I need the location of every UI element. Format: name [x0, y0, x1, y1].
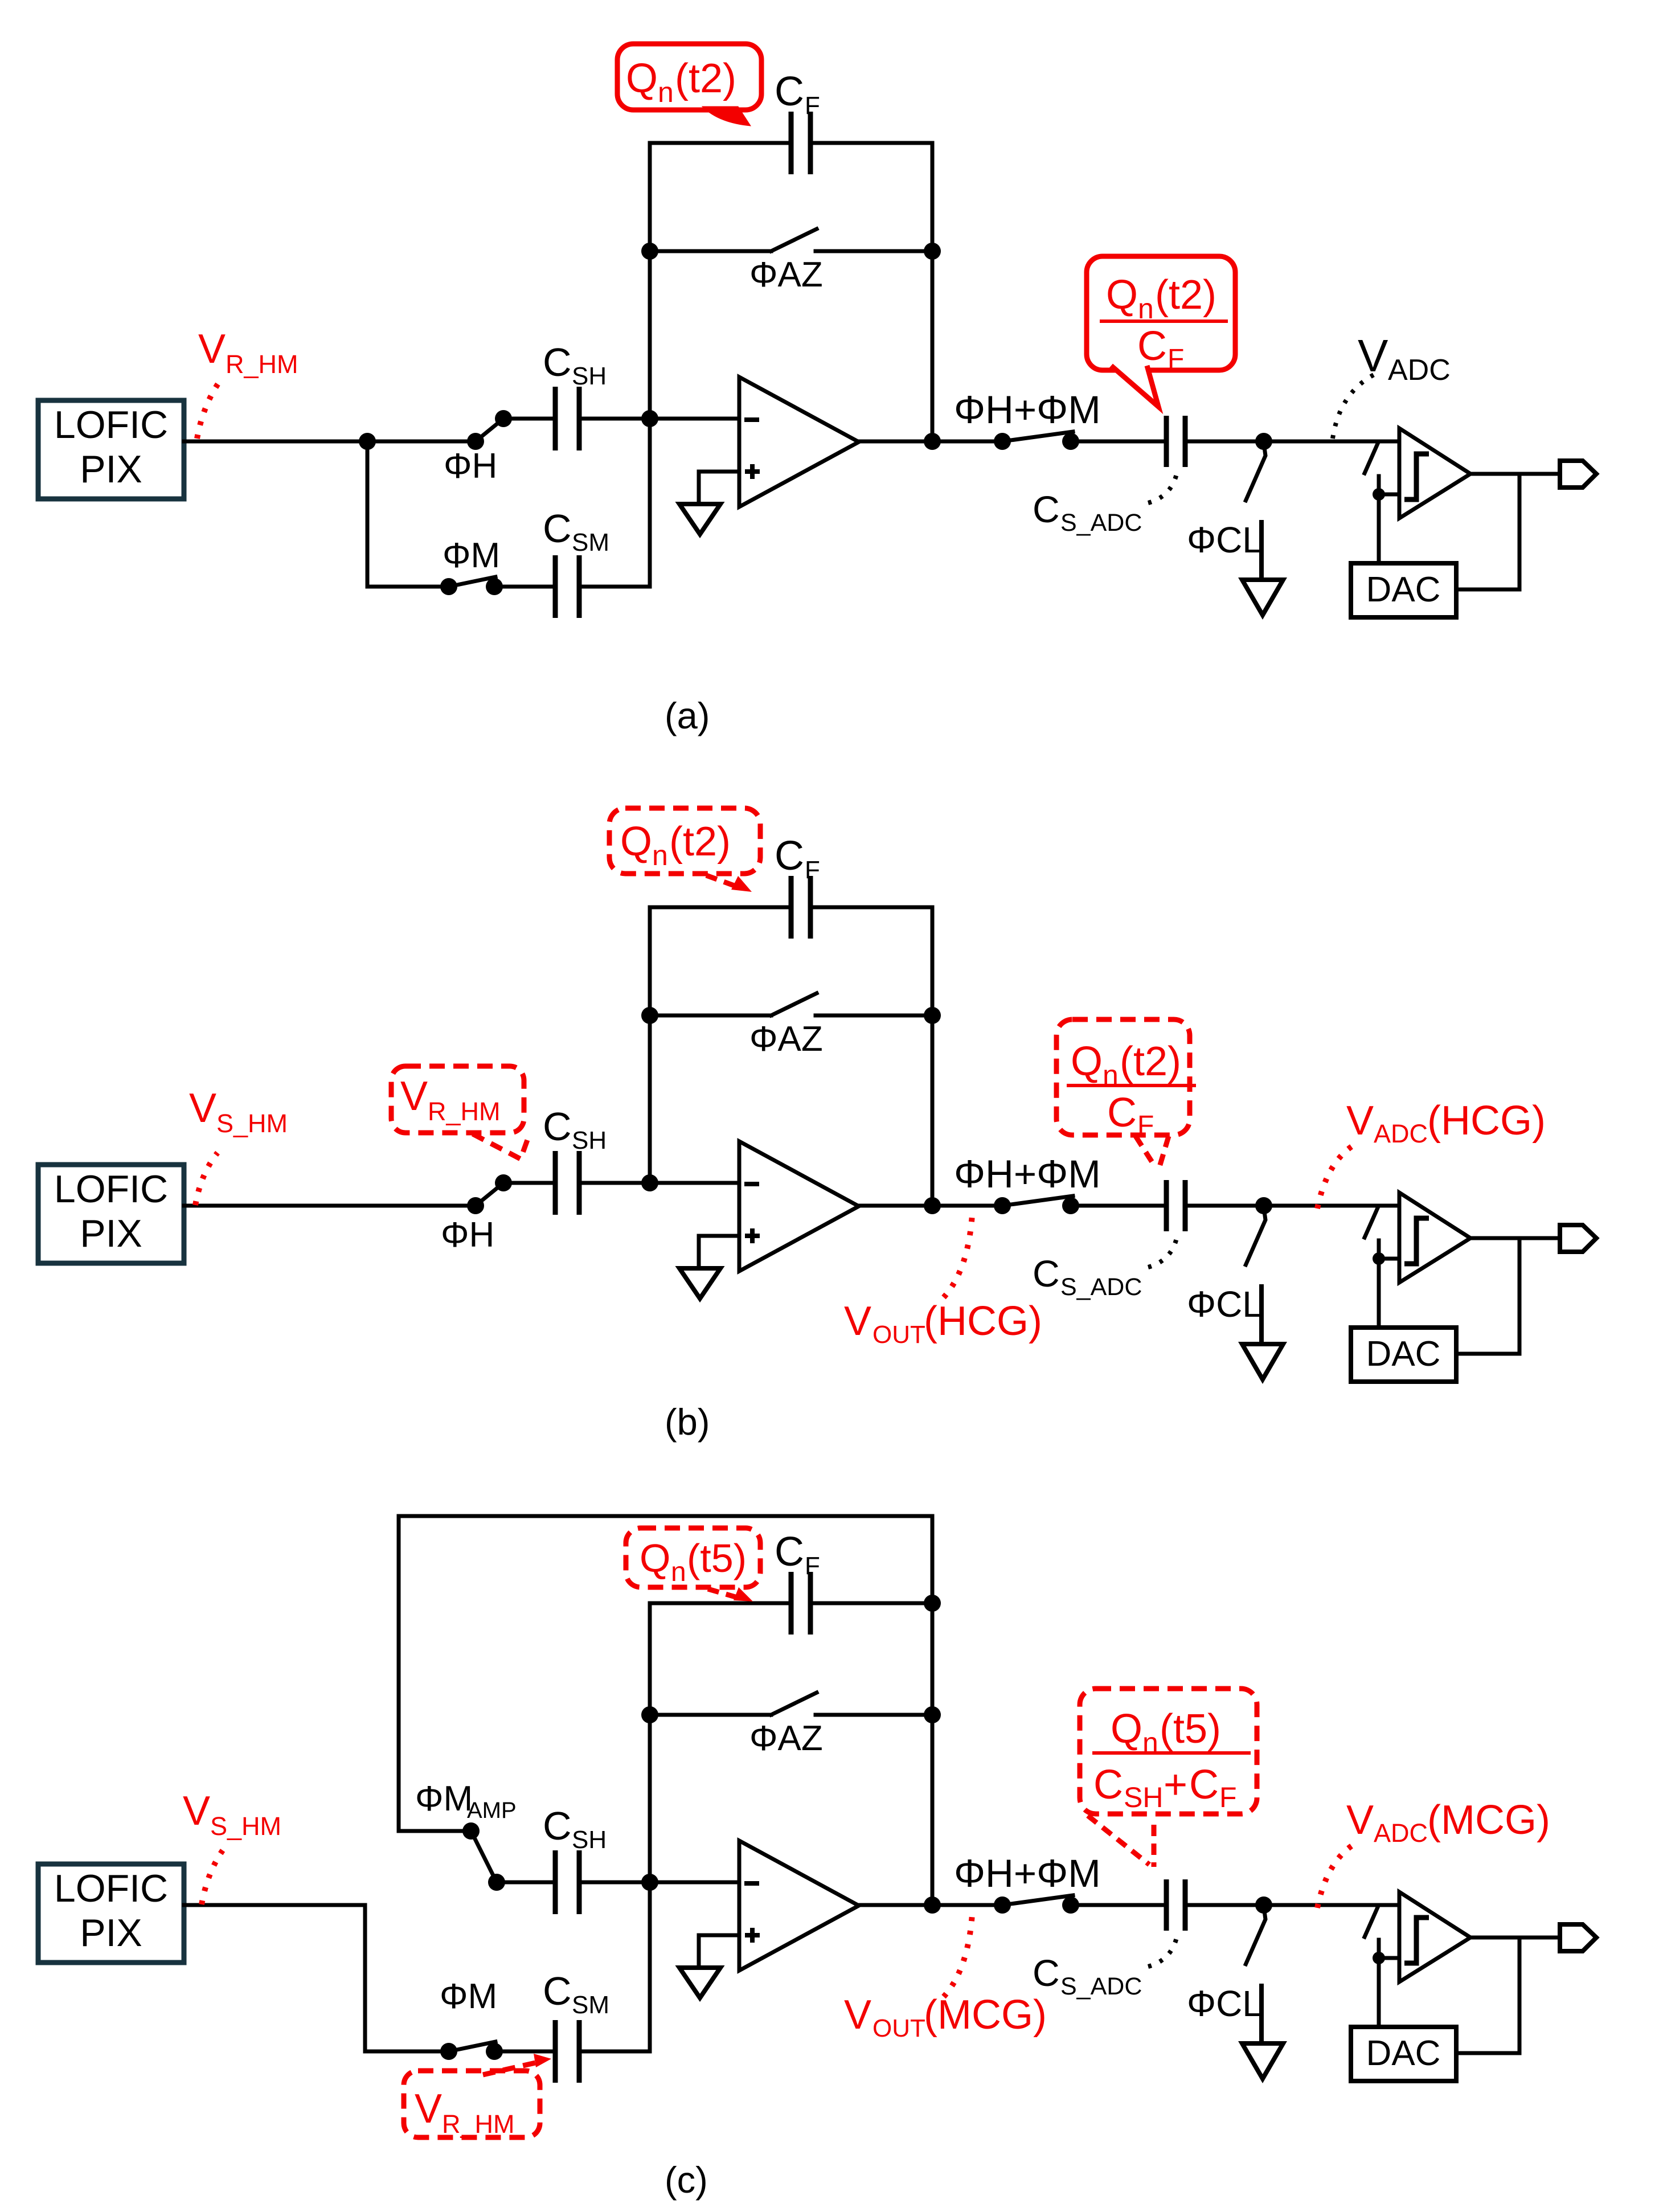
svg-text:ΦM: ΦM — [415, 1779, 473, 1818]
svg-text:PIX: PIX — [80, 1911, 142, 1955]
wire op-amp output — [859, 1204, 932, 1208]
svg-text:SH: SH — [572, 362, 607, 390]
wire node D to comparator — [1264, 1903, 1399, 1907]
comparator sampling switch (a) — [1365, 444, 1378, 473]
svg-text:F: F — [1168, 344, 1184, 374]
svg-text:C: C — [1033, 488, 1060, 530]
node E (DAC feedback node) — [1373, 1252, 1385, 1265]
svg-text:Q: Q — [626, 56, 658, 101]
ground arrow below PHI-CL — [1242, 2043, 1283, 2079]
svg-text:(t2): (t2) — [669, 819, 731, 865]
svg-text:Q: Q — [620, 819, 652, 865]
svg-text:R_HM: R_HM — [428, 1097, 501, 1126]
wire node D to comparator — [1264, 1204, 1399, 1208]
op-amp plus sign — [745, 469, 760, 474]
svg-text:C: C — [1033, 1252, 1060, 1295]
svg-text:+: + — [1164, 1762, 1187, 1808]
op-amp U1 (b) — [739, 1141, 859, 1271]
op-amp minus sign — [744, 1881, 759, 1886]
svg-text:C: C — [543, 340, 572, 384]
DAC block (c) — [1351, 2027, 1456, 2081]
wire node A down to PHI-M branch — [366, 441, 370, 587]
red dotted leader V_S_HM (c) — [202, 1850, 223, 1904]
svg-text:Q: Q — [640, 1536, 670, 1580]
svg-text:C: C — [1189, 1762, 1219, 1808]
switch PHI-H+PHI-M (a) — [1002, 432, 1073, 441]
comparator U2 (b) — [1399, 1193, 1470, 1283]
svg-text:S_HM: S_HM — [210, 1812, 281, 1841]
comparator U2 (c) — [1399, 1892, 1470, 1982]
dotted leader C_S_ADC — [1148, 1932, 1178, 1967]
svg-text:F: F — [1137, 1111, 1154, 1141]
switch PHI-AZ (a) — [641, 243, 658, 260]
feedback wire comparator output to DAC — [1456, 1238, 1519, 1354]
hysteresis symbol inside comparator — [1404, 1918, 1429, 1963]
capacitor C_S_ADC (c) — [1164, 1879, 1169, 1931]
switch PHI-H (b) — [476, 1183, 503, 1206]
svg-text:DAC: DAC — [1366, 570, 1441, 609]
wire node E down to DAC — [1377, 494, 1381, 563]
red dotted leader V_S_HM (b) — [195, 1153, 218, 1205]
ground symbol at op-amp plus input — [679, 504, 720, 534]
wire C_S_ADC to node D — [1185, 440, 1264, 444]
node C junction (output/feedback) — [924, 1896, 941, 1914]
red dashed callout Q_n(t5)/(C_SH+C_F) at C_S_ADC (c) — [1080, 1689, 1257, 1814]
switch PHI-H+PHI-M (c) — [1002, 1895, 1073, 1905]
red callout Q_n(t2)/C_F at C_S_ADC (a) — [1087, 256, 1235, 370]
svg-text:(t5): (t5) — [687, 1536, 747, 1580]
node D junction — [1255, 1896, 1272, 1914]
svg-text:V: V — [844, 1298, 871, 1344]
svg-text:(MCG): (MCG) — [1427, 1797, 1550, 1843]
svg-text:C: C — [775, 1529, 804, 1575]
svg-text:V: V — [1346, 1797, 1374, 1843]
svg-text:SH: SH — [1124, 1781, 1163, 1813]
hysteresis symbol inside comparator — [1404, 454, 1429, 499]
vertical feedback wire left — [648, 143, 652, 419]
switch PHI-CL (b) — [1245, 1207, 1265, 1267]
node D junction — [1255, 1197, 1272, 1214]
svg-text:R_HM: R_HM — [442, 2109, 515, 2139]
comparator U2 (a) — [1399, 428, 1470, 518]
capacitor C_SM (c) — [553, 2020, 558, 2083]
svg-text:SM: SM — [572, 529, 609, 556]
svg-text:V: V — [183, 1788, 210, 1834]
svg-text:ΦCL: ΦCL — [1187, 1284, 1263, 1325]
svg-text:V: V — [844, 1992, 871, 2038]
capacitor C_S_ADC (a) — [1164, 416, 1169, 467]
junction dot C_F right / top loop — [924, 1595, 941, 1612]
wire LOFIC output to node A — [184, 440, 367, 444]
svg-text:(MCG): (MCG) — [924, 1992, 1047, 2038]
svg-text:(a): (a) — [665, 695, 710, 736]
svg-text:F: F — [805, 92, 820, 120]
comparator sampling switch (c) — [1365, 1907, 1378, 1937]
output port (c) — [1560, 1924, 1596, 1951]
ground symbol at op-amp plus input — [679, 1268, 720, 1298]
wire node E down to DAC — [1377, 1958, 1381, 2027]
svg-text:ΦCL: ΦCL — [1187, 1983, 1263, 2024]
svg-text:SH: SH — [572, 1826, 607, 1854]
vertical wire node B down to C_SM branch — [648, 419, 652, 587]
svg-text:ΦAZ: ΦAZ — [749, 1019, 823, 1059]
svg-text:R_HM: R_HM — [226, 350, 298, 379]
svg-text:(t2): (t2) — [675, 56, 736, 101]
wire node B to op-amp minus input — [650, 1881, 739, 1885]
ground symbol at op-amp plus input — [679, 1968, 720, 1998]
vertical feedback wire right — [931, 143, 935, 441]
op-amp plus sign — [745, 1234, 760, 1238]
wire to switch PHI-H+PHI-M — [932, 1204, 1002, 1208]
vertical feedback wire right — [931, 1603, 935, 1905]
wire switch to C_SH — [503, 1181, 555, 1185]
svg-text:C: C — [543, 1104, 572, 1149]
switch PHI-AZ (b) — [641, 1007, 658, 1024]
wire LOFIC output — [184, 1903, 365, 1907]
red dotted leader V_OUT (b) — [944, 1215, 972, 1297]
svg-text:(t2): (t2) — [1155, 272, 1216, 318]
comparator output wire — [1470, 1236, 1560, 1240]
svg-text:ΦH+ΦM: ΦH+ΦM — [954, 388, 1101, 432]
svg-text:DAC: DAC — [1366, 1334, 1441, 1374]
DAC block (b) — [1351, 1328, 1456, 1382]
svg-text:V: V — [1346, 1098, 1374, 1144]
red dotted leader V_OUT (c) — [944, 1914, 972, 1997]
capacitor C_S_ADC (b) — [1164, 1180, 1169, 1231]
svg-text:C: C — [775, 69, 804, 114]
dotted leader V_ADC (a) — [1333, 374, 1375, 439]
capacitor C_SH (a) — [553, 387, 558, 450]
wire op-amp plus input to ground — [699, 1236, 739, 1267]
wire C_S_ADC to node D — [1185, 1903, 1264, 1907]
svg-text:Q: Q — [1111, 1706, 1142, 1752]
node E (DAC feedback node) — [1373, 488, 1385, 501]
ground arrow below PHI-CL — [1242, 580, 1283, 615]
svg-text:n: n — [671, 1557, 686, 1587]
svg-text:ΦAZ: ΦAZ — [749, 255, 823, 294]
svg-text:C: C — [543, 506, 572, 551]
svg-text:LOFIC: LOFIC — [54, 1867, 168, 1910]
wire switch to C_SM — [494, 585, 555, 589]
switch PHI-H+PHI-M (b) — [1002, 1196, 1073, 1206]
svg-text:OUT: OUT — [872, 2014, 925, 2042]
wire to switch PHI-H+PHI-M — [932, 440, 1002, 444]
red callout Q_n(t2) at C_F (a) — [617, 44, 761, 110]
PHI-CL discharge lead — [1259, 522, 1264, 580]
top feedback loop wire (c) — [399, 1516, 932, 1831]
svg-text:F: F — [805, 856, 820, 884]
op-amp U1 (c) — [739, 1841, 859, 1971]
capacitor C_F (a) — [650, 141, 791, 145]
svg-text:C: C — [1033, 1952, 1060, 1994]
wire LOFIC output to switch PHI-H — [184, 1204, 476, 1208]
output port (a) — [1560, 461, 1596, 488]
switch PHI-CL (c) — [1245, 1907, 1265, 1966]
svg-text:C: C — [543, 1969, 572, 2013]
dotted leader C_S_ADC — [1148, 1233, 1178, 1267]
PHI-CL discharge lead — [1259, 1287, 1264, 1344]
node B junction (minus input node) — [641, 410, 658, 427]
svg-text:S_ADC: S_ADC — [1060, 1273, 1142, 1301]
svg-text:ΦAZ: ΦAZ — [749, 1719, 823, 1758]
svg-text:(b): (b) — [665, 1401, 710, 1443]
red dashed callout V_R_HM at C_SM (c) — [404, 2071, 540, 2137]
capacitor C_F (b) — [650, 906, 791, 910]
svg-text:(t2): (t2) — [1120, 1039, 1181, 1084]
vertical wire node B down to C_SM branch — [648, 1882, 652, 2051]
svg-text:LOFIC: LOFIC — [54, 403, 168, 447]
red dashed callout Q_n(t2) at C_F (b) — [609, 808, 760, 874]
svg-text:V: V — [1358, 330, 1388, 381]
svg-text:PIX: PIX — [80, 1212, 142, 1255]
svg-text:ΦM: ΦM — [443, 536, 500, 575]
wire node D to comparator — [1264, 440, 1399, 444]
feedback wire comparator output to DAC — [1456, 474, 1519, 589]
switch PHI-H (a) — [476, 419, 503, 441]
wire op-amp plus input to ground — [699, 1935, 739, 1967]
op-amp minus sign — [744, 1182, 759, 1186]
svg-text:(t5): (t5) — [1160, 1706, 1221, 1752]
wire node B to op-amp minus input — [650, 1181, 739, 1185]
LOFIC PIX block (a) — [38, 400, 184, 499]
svg-text:C: C — [1093, 1762, 1123, 1808]
svg-text:AMP: AMP — [467, 1798, 517, 1823]
switch PHI-CL (a) — [1245, 443, 1265, 502]
svg-text:OUT: OUT — [872, 1321, 925, 1349]
svg-text:C: C — [1137, 323, 1167, 369]
wire down to PHI-M branch — [363, 1905, 367, 2051]
svg-text:S_ADC: S_ADC — [1060, 509, 1142, 536]
svg-text:V: V — [189, 1085, 216, 1131]
wire op-amp plus input to ground — [699, 472, 739, 503]
op-amp U1 (a) — [739, 377, 859, 507]
svg-text:F: F — [1219, 1781, 1237, 1813]
wire switch to C_SH — [503, 417, 555, 421]
svg-text:PIX: PIX — [80, 448, 142, 491]
svg-text:ADC: ADC — [1388, 354, 1451, 387]
wire C_S_ADC to node D — [1185, 1204, 1264, 1208]
svg-text:V: V — [198, 326, 226, 372]
svg-text:ΦH+ΦM: ΦH+ΦM — [954, 1152, 1101, 1196]
wire op-amp output — [859, 440, 932, 444]
feedback wire comparator output to DAC — [1456, 1937, 1519, 2053]
wire to C_S_ADC — [1071, 440, 1166, 444]
vertical feedback wire left — [648, 907, 652, 1183]
svg-text:Q: Q — [1106, 272, 1138, 318]
svg-text:(HCG): (HCG) — [924, 1298, 1042, 1344]
svg-text:n: n — [658, 76, 674, 108]
svg-text:ADC: ADC — [1374, 1818, 1428, 1848]
wire C_SM to vertical — [579, 585, 650, 589]
svg-text:LOFIC: LOFIC — [54, 1168, 168, 1211]
node C junction (output/feedback) — [924, 433, 941, 450]
red dotted leader V_ADC (c) — [1317, 1844, 1354, 1908]
svg-text:S_ADC: S_ADC — [1060, 1973, 1142, 2000]
ground arrow below PHI-CL — [1242, 1344, 1283, 1379]
wire node E down to DAC — [1377, 1259, 1381, 1328]
svg-text:ΦH: ΦH — [441, 1215, 494, 1255]
vertical feedback wire right — [931, 907, 935, 1206]
op-amp plus sign — [745, 1933, 760, 1937]
svg-text:ΦM: ΦM — [440, 1977, 497, 2016]
svg-text:SM: SM — [572, 1991, 609, 2019]
wire C_SM to vertical — [579, 2050, 650, 2054]
switch PHI-M_AMP — [399, 1829, 471, 1833]
svg-text:n: n — [652, 839, 668, 871]
svg-text:DAC: DAC — [1366, 2034, 1441, 2073]
svg-text:Q: Q — [1071, 1039, 1103, 1084]
wire switch to C_SM — [494, 2050, 555, 2054]
svg-text:(HCG): (HCG) — [1427, 1098, 1546, 1144]
svg-text:ΦH: ΦH — [444, 447, 497, 486]
capacitor C_F (c) — [650, 1601, 791, 1605]
svg-text:V: V — [415, 2086, 442, 2132]
red dotted leader V_R_HM — [197, 383, 219, 439]
svg-text:C: C — [1107, 1090, 1137, 1136]
node C junction (output/feedback) — [924, 1197, 941, 1214]
wire to switch PHI-H+PHI-M — [932, 1903, 1002, 1907]
wire to C_S_ADC — [1071, 1903, 1166, 1907]
red dotted leader V_ADC (b) — [1317, 1145, 1354, 1209]
svg-text:SH: SH — [572, 1127, 607, 1154]
node D junction — [1255, 433, 1272, 450]
wire switch to C_SH — [497, 1881, 555, 1885]
PHI-CL discharge lead — [1259, 1986, 1264, 2043]
svg-text:F: F — [805, 1552, 820, 1580]
capacitor C_SM (a) — [553, 555, 558, 618]
svg-text:C: C — [543, 1804, 572, 1848]
svg-text:S_HM: S_HM — [216, 1109, 288, 1138]
wire to C_S_ADC — [1071, 1204, 1166, 1208]
svg-text:ΦH+ΦM: ΦH+ΦM — [954, 1851, 1101, 1895]
node E (DAC feedback node) — [1373, 1952, 1385, 1964]
comparator output wire — [1470, 1936, 1560, 1940]
op-amp minus sign — [744, 417, 759, 422]
node A junction — [359, 433, 376, 450]
output port (b) — [1560, 1225, 1596, 1252]
hysteresis symbol inside comparator — [1404, 1218, 1429, 1264]
svg-text:C: C — [775, 833, 804, 879]
red dashed callout Q_n(t5) at C_F (c) — [626, 1528, 760, 1587]
node B junction (minus input node) — [641, 1174, 658, 1191]
switch PHI-M (a) — [367, 585, 449, 589]
comparator output wire — [1470, 472, 1560, 476]
dotted leader C_S_ADC — [1148, 469, 1178, 503]
switch PHI-AZ (c) — [641, 1706, 658, 1723]
LOFIC PIX block (c) — [38, 1864, 184, 1963]
capacitor C_SH (b) — [553, 1151, 558, 1215]
wire node B to op-amp minus input — [650, 417, 739, 421]
svg-text:(c): (c) — [665, 2159, 708, 2201]
switch PHI-M (c) — [365, 2050, 449, 2054]
wire op-amp output — [859, 1903, 932, 1907]
LOFIC PIX block (b) — [38, 1165, 184, 1263]
capacitor C_SH (c) — [553, 1850, 558, 1914]
svg-text:V: V — [400, 1074, 428, 1119]
node B junction (minus input node) — [641, 1874, 658, 1891]
svg-text:ADC: ADC — [1374, 1119, 1428, 1148]
red dashed callout V_R_HM at PHI-H (b) — [391, 1066, 524, 1133]
wire node A to switch PHI-H — [367, 440, 476, 444]
svg-text:ΦCL: ΦCL — [1187, 519, 1263, 560]
comparator sampling switch (b) — [1365, 1208, 1378, 1238]
vertical feedback wire left — [648, 1603, 652, 1882]
red dashed callout Q_n(t2)/C_F at C_S_ADC (b) — [1056, 1019, 1190, 1135]
DAC block (a) — [1351, 563, 1456, 617]
